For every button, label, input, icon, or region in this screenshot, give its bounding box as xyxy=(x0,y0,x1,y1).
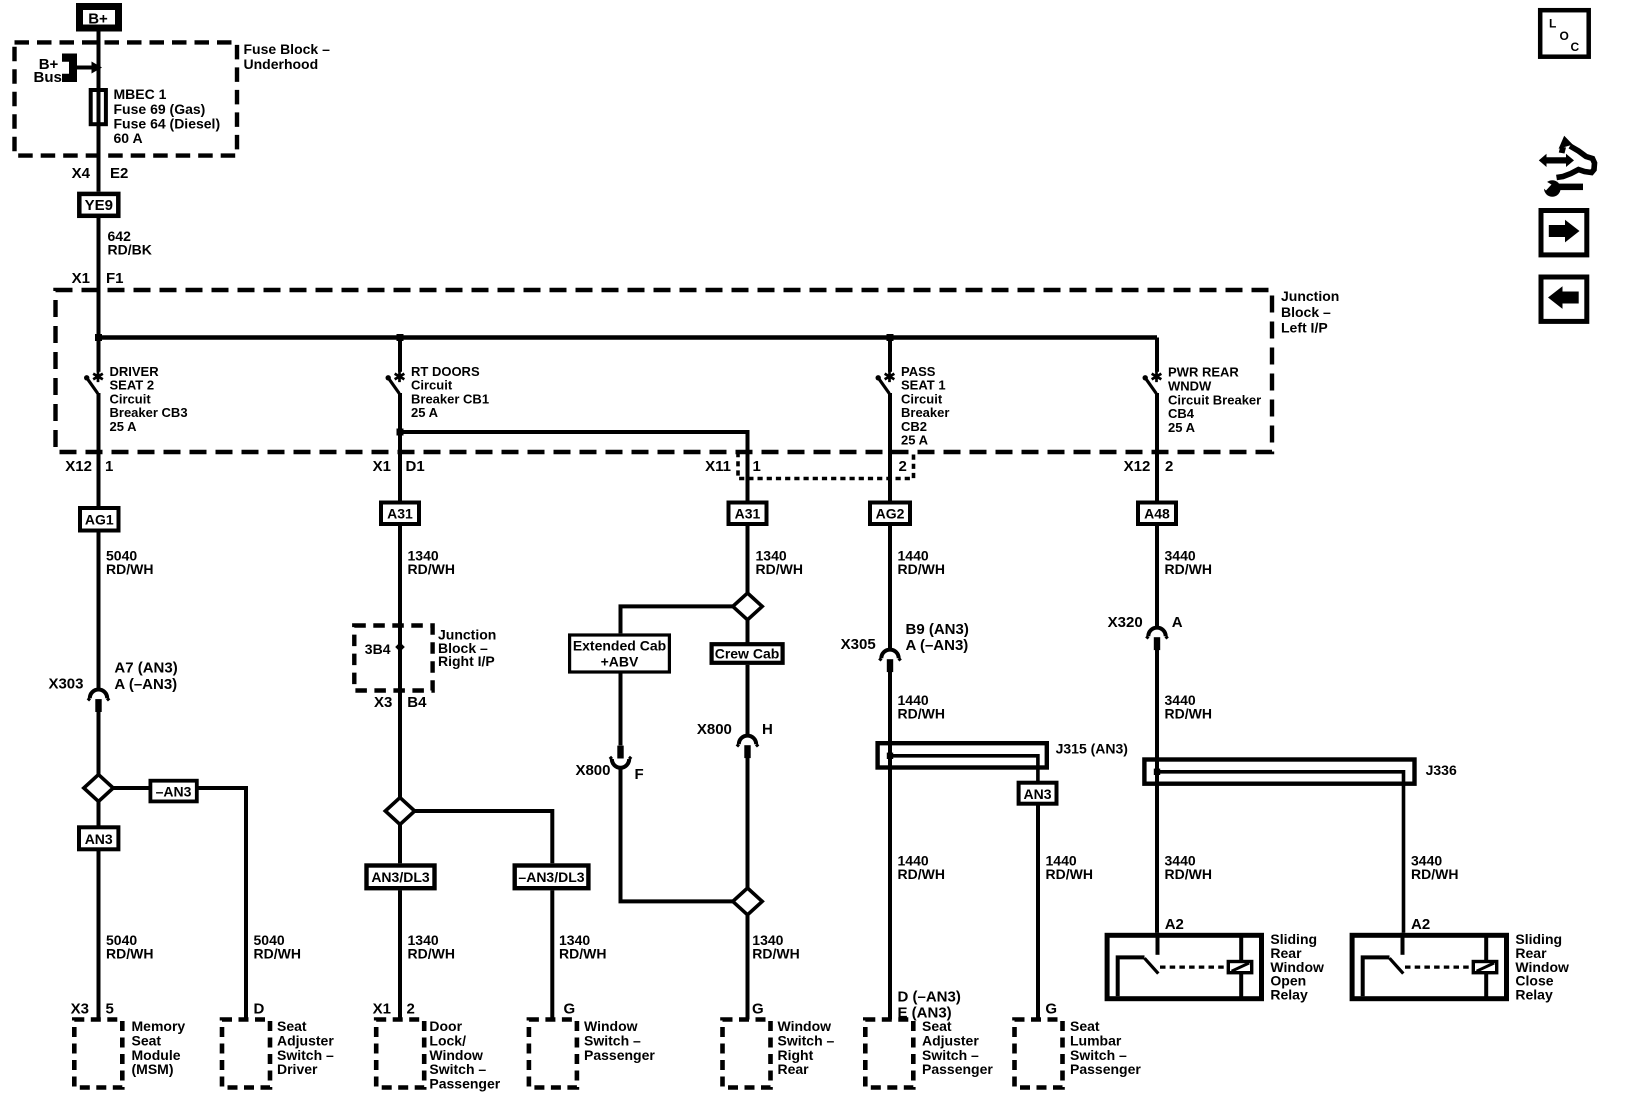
svg-text:Right I/P: Right I/P xyxy=(438,653,495,669)
label junction block right I/P xyxy=(438,627,496,670)
connector X800 H xyxy=(737,736,758,759)
label seat lumbar switch passenger xyxy=(1070,1018,1141,1077)
junction node J315 xyxy=(887,753,893,759)
label wire 642 RD/BK xyxy=(108,228,152,257)
icon wrench nav xyxy=(1539,136,1595,197)
svg-text:RD/WH: RD/WH xyxy=(408,561,455,577)
label wire 1440 RD/WH adjuster xyxy=(898,853,945,882)
svg-text:–AN3: –AN3 xyxy=(156,783,192,799)
svg-text:B4: B4 xyxy=(407,694,427,711)
connector X305 xyxy=(879,650,900,673)
wire X800 F to lower diamond xyxy=(621,769,734,902)
svg-text:G: G xyxy=(752,1001,764,1018)
wire X305 through J315 to seat adjuster switch passenger xyxy=(888,672,892,1020)
junction node J336 xyxy=(1154,769,1160,775)
wire 5040 RD/WH to memory seat module xyxy=(97,849,101,1019)
svg-text:RD/WH: RD/WH xyxy=(1411,866,1458,882)
svg-text:RD/WH: RD/WH xyxy=(752,946,799,962)
junction node at CB2 tap xyxy=(887,334,894,341)
svg-text:A2: A2 xyxy=(1165,916,1184,933)
terminal A31 xyxy=(729,503,767,525)
relay K sliding rear window close xyxy=(1352,933,1506,999)
option splice diamond AN3/DL3 xyxy=(385,798,414,825)
svg-text:A31: A31 xyxy=(387,506,413,522)
svg-text:D: D xyxy=(254,1001,265,1018)
label seat adjuster switch driver xyxy=(277,1018,334,1077)
label window switch passenger xyxy=(584,1018,655,1063)
svg-text:X800: X800 xyxy=(575,762,610,779)
svg-text:H: H xyxy=(762,721,773,738)
option box AN3/DL3 xyxy=(367,866,435,889)
svg-text:2: 2 xyxy=(407,1001,415,1018)
option box -AN3/DL3 xyxy=(515,866,589,889)
wire 1340 RD/WH to window switch passenger xyxy=(550,890,554,1019)
svg-text:E2: E2 xyxy=(110,165,128,182)
svg-text:A31: A31 xyxy=(735,506,761,522)
battery feed B+ terminal xyxy=(80,7,119,29)
junction node CB1 branch xyxy=(397,429,404,436)
wire X320 through J336 to open relay xyxy=(1155,650,1159,933)
label circuit breaker CB2 xyxy=(901,364,949,448)
svg-text:RD/WH: RD/WH xyxy=(254,946,301,962)
option splice diamond cab style bottom xyxy=(733,888,762,915)
svg-text:Passenger: Passenger xyxy=(922,1061,993,1077)
label wire 1340 RD/WH xyxy=(408,548,455,577)
svg-text:A2: A2 xyxy=(1411,916,1430,933)
svg-text:RD/WH: RD/WH xyxy=(1046,866,1093,882)
svg-text:Circuit Breaker: Circuit Breaker xyxy=(1168,392,1261,407)
component window switch passenger xyxy=(529,1020,577,1088)
svg-text:X3: X3 xyxy=(71,1001,89,1018)
splice pack J336 xyxy=(1144,760,1414,784)
wire 1440 RD/WH to seat lumbar switch xyxy=(1036,804,1040,1020)
svg-text:Underhood: Underhood xyxy=(244,56,319,72)
svg-text:1: 1 xyxy=(105,458,113,475)
wire 1340 RD/WH to window switch right rear xyxy=(746,915,750,1020)
wire AG2 to connector X305 xyxy=(888,526,892,649)
label door lock window switch passenger xyxy=(429,1018,500,1091)
svg-text:X4: X4 xyxy=(72,165,91,182)
component seat adjuster switch passenger xyxy=(865,1020,913,1088)
wire X800 H to lower diamond xyxy=(746,758,750,889)
label circuit breaker CB3 xyxy=(110,364,188,434)
svg-text:1: 1 xyxy=(753,458,761,475)
svg-text:(MSM): (MSM) xyxy=(132,1061,174,1077)
connector YE9 xyxy=(79,194,118,216)
svg-text:25 A: 25 A xyxy=(1168,420,1196,435)
terminal AG1 xyxy=(80,508,119,531)
svg-text:5: 5 xyxy=(106,1001,114,1018)
label junction block left I/P xyxy=(1281,288,1339,336)
svg-text:D1: D1 xyxy=(406,458,425,475)
label wire 5040 RD/WH left xyxy=(106,932,153,961)
svg-text:A7 (AN3): A7 (AN3) xyxy=(114,660,177,677)
label wire 3440 RD/WH open relay xyxy=(1165,853,1212,882)
label memory seat module MSM xyxy=(132,1018,186,1077)
svg-text:Block –: Block – xyxy=(1281,304,1331,320)
svg-text:F: F xyxy=(635,766,644,783)
connector X303 xyxy=(88,690,109,713)
svg-text:X1: X1 xyxy=(373,458,391,475)
junction block left I/P enclosure xyxy=(56,290,1273,452)
svg-text:CB4: CB4 xyxy=(1168,406,1195,421)
wire -AN3 to seat adjuster switch driver xyxy=(197,788,246,1020)
svg-text:X303: X303 xyxy=(48,675,83,692)
svg-text:G: G xyxy=(1045,1001,1057,1018)
wire A31 to option diamond xyxy=(746,526,750,593)
wire 642 RD/BK xyxy=(97,218,101,338)
svg-text:Relay: Relay xyxy=(1270,986,1308,1002)
wire bus to circuit breaker CB1 xyxy=(398,338,402,372)
svg-text:+ABV: +ABV xyxy=(601,654,639,670)
circuit breaker CB4 xyxy=(1143,371,1162,394)
svg-text:A: A xyxy=(1172,614,1183,631)
svg-text:AG1: AG1 xyxy=(85,512,114,528)
wire A48 to connector X320 xyxy=(1155,526,1159,627)
svg-text:X305: X305 xyxy=(841,636,876,653)
relay K sliding rear window open xyxy=(1107,933,1261,999)
connector X11 body xyxy=(738,452,914,479)
svg-text:X1: X1 xyxy=(72,270,90,287)
junction node 3B4 xyxy=(395,642,405,652)
wire from B+ to fuse MBEC1 xyxy=(97,32,101,192)
svg-text:O: O xyxy=(1560,29,1569,43)
label wire 5040 RD/WH right xyxy=(254,932,301,961)
wire diamond to option box -AN3 xyxy=(113,786,150,790)
circuit breaker CB3 xyxy=(84,371,103,394)
svg-text:Fuse Block –: Fuse Block – xyxy=(244,41,331,57)
circuit breaker CB2 xyxy=(876,371,895,394)
svg-text:X12: X12 xyxy=(1124,458,1151,475)
component seat adjuster switch driver xyxy=(222,1020,270,1088)
wire diamond to extended cab leg xyxy=(621,606,733,633)
option box AN3 lumbar xyxy=(1019,783,1057,804)
svg-text:X12: X12 xyxy=(65,458,92,475)
label circuit breaker CB1 xyxy=(411,364,489,420)
svg-text:RD/WH: RD/WH xyxy=(559,946,606,962)
label window switch right rear xyxy=(778,1018,835,1077)
svg-text:A (–AN3): A (–AN3) xyxy=(906,637,969,654)
wire 1340 RD/WH to door lock window switch xyxy=(398,890,402,1019)
svg-text:RD/WH: RD/WH xyxy=(898,866,945,882)
svg-text:RD/WH: RD/WH xyxy=(898,561,945,577)
label circuit breaker CB4 xyxy=(1168,365,1261,436)
svg-text:J336: J336 xyxy=(1426,762,1457,778)
terminal A31 xyxy=(381,503,419,525)
svg-text:RD/WH: RD/WH xyxy=(898,705,945,721)
terminal AG2 xyxy=(870,503,910,525)
icon forward arrow xyxy=(1541,211,1587,255)
label wire 5040 RD/WH xyxy=(106,548,153,577)
wire bus to circuit breaker CB4 xyxy=(1155,338,1159,372)
svg-text:25 A: 25 A xyxy=(411,405,439,420)
wire J336 internal to close relay xyxy=(1157,772,1404,933)
label wire 1340 RD/WH door lock xyxy=(408,932,455,961)
svg-text:25 A: 25 A xyxy=(110,419,138,434)
wire CB1 branch to X11 pin 1 xyxy=(400,432,748,501)
svg-text:Passenger: Passenger xyxy=(429,1075,500,1091)
svg-text:Rear: Rear xyxy=(778,1061,810,1077)
wire terminal AG1 to connector X303 xyxy=(97,533,101,689)
svg-text:Left I/P: Left I/P xyxy=(1281,320,1328,336)
svg-text:Passenger: Passenger xyxy=(1070,1061,1141,1077)
svg-text:WNDW: WNDW xyxy=(1168,378,1212,393)
svg-text:–AN3/DL3: –AN3/DL3 xyxy=(518,869,584,885)
label wire 1340 RD/WH right rear xyxy=(752,932,799,961)
svg-text:RD/WH: RD/WH xyxy=(1165,866,1212,882)
label wire 3440 RD/WH xyxy=(1165,548,1212,577)
node B+ Bus xyxy=(34,54,103,87)
label fuse MBEC1 value xyxy=(114,86,221,146)
fuse MBEC 1 Fuse 69 (Gas) / Fuse 64 (Diesel) 60 A xyxy=(91,90,106,124)
svg-text:J315 (AN3): J315 (AN3) xyxy=(1056,741,1128,757)
svg-text:AG2: AG2 xyxy=(876,506,905,522)
circuit breaker CB1 xyxy=(386,371,405,394)
option splice diamond AN3 xyxy=(84,775,113,802)
label wire 1340 RD/WH xyxy=(756,548,803,577)
svg-text:60 A: 60 A xyxy=(114,130,143,146)
svg-text:Relay: Relay xyxy=(1515,986,1553,1002)
svg-text:C: C xyxy=(1571,40,1580,54)
label sliding rear window close relay xyxy=(1515,931,1569,1002)
wire circuit breaker CB3 output xyxy=(97,393,101,506)
junction block right I/P enclosure 3B4 xyxy=(354,626,432,691)
svg-text:RD/WH: RD/WH xyxy=(106,561,153,577)
option box -AN3 xyxy=(150,781,196,802)
svg-text:X11: X11 xyxy=(705,458,731,475)
svg-text:Fuse 64 (Diesel): Fuse 64 (Diesel) xyxy=(114,115,221,131)
wire circuit breaker CB2 output xyxy=(888,393,892,501)
svg-text:AN3: AN3 xyxy=(85,831,113,847)
option splice diamond cab style top xyxy=(733,593,762,620)
option box Extended Cab +ABV xyxy=(570,635,670,672)
svg-text:D (–AN3): D (–AN3) xyxy=(898,989,961,1006)
label seat adjuster switch passenger xyxy=(922,1018,993,1077)
wire diamond to -AN3/DL3 box xyxy=(415,811,553,863)
wire diamond to crew cab box xyxy=(746,619,750,643)
terminal A48 xyxy=(1138,503,1176,525)
wire diamond to option box AN3 xyxy=(97,801,101,827)
svg-text:AN3/DL3: AN3/DL3 xyxy=(371,869,430,885)
icon back arrow xyxy=(1541,277,1587,321)
svg-text:Driver: Driver xyxy=(277,1061,318,1077)
svg-text:RD/WH: RD/WH xyxy=(106,946,153,962)
svg-text:YE9: YE9 xyxy=(85,197,113,214)
junction node at CB1 tap xyxy=(397,334,404,341)
wire bus to circuit breaker CB3 xyxy=(97,338,101,372)
svg-text:A (–AN3): A (–AN3) xyxy=(114,676,177,693)
svg-text:Passenger: Passenger xyxy=(584,1047,655,1063)
svg-text:2: 2 xyxy=(899,458,907,475)
component door lock window switch passenger xyxy=(376,1020,424,1088)
svg-text:B+: B+ xyxy=(88,11,108,28)
wire X303 to splice diamond xyxy=(97,712,101,777)
component seat lumbar switch passenger xyxy=(1015,1020,1063,1088)
label fuse block underhood xyxy=(244,41,331,72)
component memory seat module MSM xyxy=(74,1020,122,1088)
connector X320 xyxy=(1146,628,1167,651)
label sliding rear window open relay xyxy=(1270,931,1324,1002)
label wire 3440 RD/WH close relay xyxy=(1411,853,1458,882)
svg-text:Crew Cab: Crew Cab xyxy=(715,645,780,661)
svg-text:Junction: Junction xyxy=(1281,288,1339,304)
bus wire inside junction block xyxy=(99,335,1158,340)
wire circuit breaker CB1 output xyxy=(398,393,402,501)
svg-text:X3: X3 xyxy=(374,694,392,711)
label wire 1440 RD/WH lumbar xyxy=(1046,853,1093,882)
wire A31 through junction block right I/P xyxy=(398,526,402,798)
svg-text:L: L xyxy=(1549,17,1556,31)
svg-text:MBEC 1: MBEC 1 xyxy=(114,86,167,102)
svg-text:AN3: AN3 xyxy=(1023,786,1051,802)
icon LOC box xyxy=(1540,10,1589,57)
svg-text:Bus: Bus xyxy=(34,69,62,86)
svg-text:X320: X320 xyxy=(1108,614,1143,631)
svg-text:RD/WH: RD/WH xyxy=(756,561,803,577)
label wire 1440 RD/WH upper xyxy=(898,692,945,721)
svg-text:Fuse 69 (Gas): Fuse 69 (Gas) xyxy=(114,101,206,117)
svg-text:3B4: 3B4 xyxy=(365,641,391,657)
splice pack J315 (AN3) xyxy=(878,743,1047,767)
wire extended cab to X800 F xyxy=(619,672,623,745)
connector X800 F xyxy=(610,746,631,768)
wire circuit breaker CB4 output xyxy=(1155,393,1159,501)
wire crew cab to X800 H xyxy=(746,665,750,735)
wire diamond to AN3/DL3 box xyxy=(398,824,402,863)
svg-text:25 A: 25 A xyxy=(901,433,929,448)
svg-text:RD/WH: RD/WH xyxy=(1165,561,1212,577)
option box Crew Cab xyxy=(712,644,783,663)
svg-text:X800: X800 xyxy=(697,721,732,738)
junction node at CB3 tap xyxy=(95,334,102,341)
svg-text:F1: F1 xyxy=(106,270,124,287)
svg-text:A48: A48 xyxy=(1144,506,1170,522)
svg-text:G: G xyxy=(564,1001,576,1018)
svg-text:RD/WH: RD/WH xyxy=(1165,705,1212,721)
svg-text:RD/BK: RD/BK xyxy=(108,242,152,258)
svg-text:RD/WH: RD/WH xyxy=(408,946,455,962)
option box AN3 xyxy=(79,827,118,849)
wire J315 internal to AN3 box xyxy=(890,756,1038,783)
wire bus to circuit breaker CB2 xyxy=(888,338,892,372)
label wire 1340 RD/WH window switch xyxy=(559,932,606,961)
component window switch right rear xyxy=(723,1020,771,1088)
svg-text:2: 2 xyxy=(1165,458,1173,475)
fuse block underhood enclosure xyxy=(15,42,238,155)
svg-text:Extended Cab: Extended Cab xyxy=(573,638,666,654)
svg-text:B9 (AN3): B9 (AN3) xyxy=(906,621,969,638)
svg-text:PWR REAR: PWR REAR xyxy=(1168,365,1239,380)
label wire 1440 RD/WH xyxy=(898,548,945,577)
svg-text:X1: X1 xyxy=(373,1001,391,1018)
label wire 3440 RD/WH upper xyxy=(1165,692,1212,721)
